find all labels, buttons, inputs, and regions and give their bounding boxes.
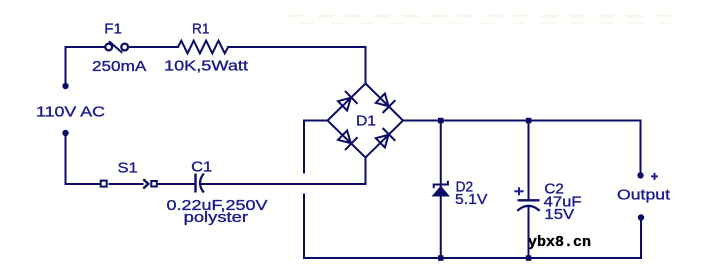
node junction C2 top: [526, 118, 532, 124]
node AC source terminal lower: [62, 130, 68, 136]
svg-text:Output: Output: [617, 187, 671, 204]
resistor R1: [178, 41, 228, 54]
node AC source terminal upper: [62, 83, 68, 89]
node junction D2 bottom: [438, 255, 444, 260]
wire output lower lead: [640, 220, 642, 258]
svg-text:15V: 15V: [544, 206, 574, 223]
node junction D2 top: [438, 118, 444, 124]
svg-text:110V AC: 110V AC: [36, 104, 105, 121]
wire bottom negative rail: [304, 257, 641, 259]
wire bridge left vertex down (lower segment) to bottom rail: [303, 195, 305, 259]
svg-text:10K,5Watt: 10K,5Watt: [164, 58, 249, 75]
wire C1 to bridge bottom vertex: [201, 158, 366, 185]
faint top border artifact: [290, 15, 680, 18]
svg-text:C1: C1: [191, 159, 212, 176]
diode D1 top-right (anode top, cathode right vertex): [376, 94, 396, 114]
switch S1: [101, 179, 157, 188]
svg-text:polyster: polyster: [184, 209, 248, 226]
wire AC source lower lead to switch: [66, 134, 101, 185]
node junction C2 bottom: [526, 255, 532, 260]
wire fuse to resistor: [129, 46, 178, 48]
wire C2 branch upper: [528, 121, 530, 200]
wire top rail from source to fuse: [66, 47, 105, 84]
diode D1 bottom-left (anode left vertex, cathode bottom): [338, 131, 358, 151]
wire positive rail from bridge right vertex: [403, 121, 641, 174]
wire bridge left vertex down (upper segment, crossing no-connect): [304, 121, 328, 173]
bridge rectifier D1 diamond: [328, 84, 404, 158]
svg-text:D1: D1: [356, 112, 376, 129]
svg-text:250mA: 250mA: [92, 58, 146, 75]
diode D1 bottom-right (anode bottom, cathode right vertex): [376, 128, 396, 148]
wire D2 branch vertical: [440, 121, 442, 259]
capacitor C2: [517, 200, 539, 211]
fuse F1: [105, 41, 128, 53]
svg-text:ybx8.cn: ybx8.cn: [528, 235, 591, 251]
diode D1 top-left (anode left vertex, cathode top): [338, 91, 358, 111]
svg-text:R1: R1: [192, 21, 210, 38]
svg-text:F1: F1: [104, 21, 122, 38]
node output terminal minus: [638, 214, 644, 220]
svg-text:S1: S1: [118, 160, 138, 177]
wire switch to capacitor C1: [157, 183, 194, 185]
wire C2 branch lower: [528, 207, 530, 259]
capacitor C1: [196, 174, 204, 193]
C2 plus polarity mark: [514, 187, 523, 195]
node output terminal plus: [637, 172, 643, 178]
output plus sign: [651, 173, 658, 180]
wire resistor to bridge top corner: [228, 47, 365, 84]
svg-text:5.1V: 5.1V: [455, 191, 487, 208]
zener diode D2: [432, 181, 451, 197]
